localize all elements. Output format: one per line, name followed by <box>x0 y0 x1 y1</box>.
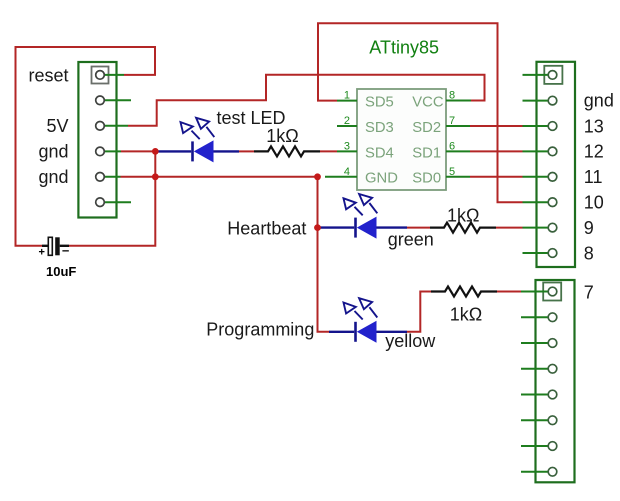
svg-text:8: 8 <box>584 243 594 263</box>
capacitor C1 10uF <box>42 237 69 255</box>
resistor R1 1k <box>254 146 320 156</box>
wire test LED to resistor <box>214 150 240 152</box>
svg-text:GND: GND <box>365 171 398 187</box>
left header pin circles <box>96 71 105 207</box>
svg-text:green: green <box>388 230 434 250</box>
wire reset: left header pin1 to top-left loop down to capacitor <box>16 47 156 246</box>
IC U1 ATtiny85 box <box>357 89 446 190</box>
junction gnd row2 <box>152 173 159 180</box>
wire resistor R1 to SD4 <box>320 150 337 152</box>
svg-text:12: 12 <box>584 142 604 162</box>
svg-text:SD4: SD4 <box>365 145 394 161</box>
wire programming LED to resistor <box>377 331 408 333</box>
lower header J3 pin circles <box>548 287 557 476</box>
test LED D1 <box>181 118 215 163</box>
svg-text:SD3: SD3 <box>365 120 394 136</box>
left header pin stubs <box>104 75 131 202</box>
lower header J3 pin1 square <box>543 283 561 301</box>
svg-text:9: 9 <box>584 218 594 238</box>
IC right pin stubs <box>446 101 471 177</box>
wire SD0 to pin11 <box>470 176 523 178</box>
right header J2 pin circles <box>548 71 557 258</box>
svg-text:gnd: gnd <box>38 142 68 162</box>
wire capacitor to gnd junctions <box>69 151 155 245</box>
junction IC GND <box>314 173 321 180</box>
wire resistor R2 to pin9 <box>496 227 523 229</box>
heartbeat LED D2 green <box>344 194 378 239</box>
svg-text:–: – <box>62 243 69 258</box>
lower header J3 stubs <box>521 292 548 472</box>
svg-text:1kΩ: 1kΩ <box>447 206 479 226</box>
wire corner to programming LED <box>329 331 354 333</box>
svg-text:reset: reset <box>28 66 68 86</box>
right header J2 pin1 square <box>544 66 562 84</box>
svg-text:+: + <box>39 247 45 259</box>
wire junction to test LED <box>157 150 191 152</box>
wire gnd row2 to IC GND <box>121 176 318 178</box>
svg-text:SD5: SD5 <box>365 95 394 111</box>
svg-text:1kΩ: 1kΩ <box>266 126 298 146</box>
svg-text:13: 13 <box>584 116 604 136</box>
svg-text:2: 2 <box>344 115 350 127</box>
svg-text:6: 6 <box>449 140 455 152</box>
wire 5V to VCC <box>128 75 485 126</box>
svg-text:8: 8 <box>449 90 455 102</box>
svg-text:SD0: SD0 <box>412 171 441 187</box>
svg-text:4: 4 <box>344 166 350 178</box>
programming LED D3 yellow <box>344 298 378 343</box>
svg-text:7: 7 <box>584 283 594 303</box>
IC left pin stubs <box>325 101 357 177</box>
right header J2 box <box>537 62 576 267</box>
left header J1 box <box>78 62 116 218</box>
svg-text:yellow: yellow <box>385 331 436 351</box>
svg-text:gnd: gnd <box>38 167 68 187</box>
svg-text:1: 1 <box>344 90 350 102</box>
svg-text:SD2: SD2 <box>412 120 441 136</box>
wire gnd row1 to junction <box>121 150 155 152</box>
junction heartbeat <box>314 224 321 231</box>
svg-text:Heartbeat: Heartbeat <box>227 219 306 239</box>
IC pin labels <box>365 95 444 187</box>
svg-text:3: 3 <box>344 140 350 152</box>
svg-text:11: 11 <box>584 167 603 187</box>
lower right header J3 box <box>536 280 575 482</box>
resistor R3 1k <box>431 287 497 297</box>
svg-text:gnd: gnd <box>584 90 614 110</box>
svg-text:test LED: test LED <box>217 108 286 128</box>
svg-text:SD1: SD1 <box>412 145 441 161</box>
wire IC pin1 reset to header pin10 <box>318 23 523 202</box>
svg-text:5V: 5V <box>46 116 68 136</box>
wire up to resistor R3 <box>407 292 431 332</box>
svg-text:10: 10 <box>584 193 604 213</box>
svg-text:7: 7 <box>449 115 455 127</box>
wire gnd vertical to LEDs <box>318 177 330 332</box>
svg-text:ATtiny85: ATtiny85 <box>369 38 439 58</box>
wire heartbeat LED to resistor <box>377 226 408 228</box>
wire junction to heartbeat LED <box>320 226 354 228</box>
junction gnd row1 <box>152 148 159 155</box>
right header J2 stubs <box>523 75 549 253</box>
svg-text:5: 5 <box>449 166 455 178</box>
svg-text:Programming: Programming <box>206 320 314 340</box>
left header pin1 square <box>92 67 109 84</box>
IC pin numbers <box>344 90 455 178</box>
wire SD2 to pin13 <box>470 125 523 127</box>
wire SD1 to pin12 <box>470 150 523 152</box>
svg-text:VCC: VCC <box>412 95 444 111</box>
svg-text:1kΩ: 1kΩ <box>450 305 482 325</box>
wire resistor R3 to pin7 <box>497 291 534 293</box>
resistor R2 1k <box>430 223 496 233</box>
svg-text:10uF: 10uF <box>46 264 76 279</box>
